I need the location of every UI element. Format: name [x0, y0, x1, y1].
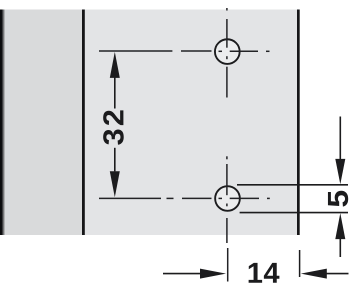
- dimension text 32: [103, 110, 124, 144]
- dimension 5: extension line bottom (hole tangent): [240, 212, 348, 214]
- panel left face: [0, 10, 83, 236]
- dimension text 14: [249, 263, 280, 283]
- panel divider line: [82, 10, 85, 236]
- dimension 5: lower arrow: [335, 213, 345, 257]
- panel right face: [83, 10, 298, 236]
- dimension 14: left arrow: [163, 269, 226, 279]
- dimension 14: right arrow: [301, 269, 349, 279]
- dimension 32: upper arrow: [110, 52, 120, 109]
- dimension 32: lower arrow: [110, 148, 120, 197]
- horizontal centerline hole H2 (also 32-dim bottom extension): [99, 197, 270, 199]
- dimension text 5: [328, 191, 348, 207]
- vertical centerline through holes: [226, 8, 229, 282]
- hole H2: [215, 186, 240, 211]
- panel left black edge: [0, 10, 6, 236]
- panel right edge line: [297, 10, 300, 236]
- dimension 5: extension line top (hole tangent): [237, 184, 348, 186]
- dimension 5: upper arrow: [335, 117, 345, 185]
- hole H1: [215, 39, 240, 64]
- horizontal centerline hole H1 (also 32-dim top extension): [99, 50, 270, 52]
- dimension 14: right extension line: [299, 250, 301, 277]
